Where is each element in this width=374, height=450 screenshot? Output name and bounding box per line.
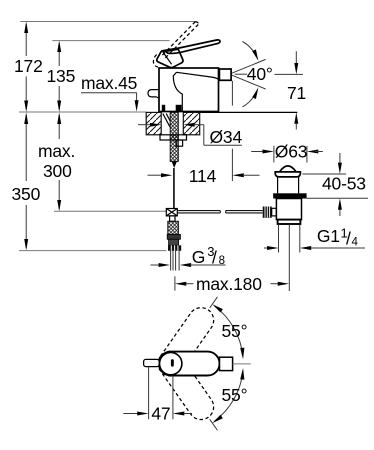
svg-text:G: G xyxy=(192,247,205,267)
top view: lever swung positions (dashed) xyxy=(153,303,218,425)
wire reference line flange underside xyxy=(302,173,346,175)
base seal dark blocks xyxy=(162,105,165,112)
shank tip xyxy=(172,161,177,168)
connector blocks xyxy=(167,234,180,239)
wire extension line from spout tip xyxy=(231,81,233,106)
wire inner spout channel top xyxy=(177,72,219,79)
wire centerline right xyxy=(233,363,251,365)
mounting washer xyxy=(160,135,187,140)
top view: pin mark xyxy=(171,359,174,366)
dimension 350 (depth below counter to hose end) xyxy=(12,112,167,250)
drain upper body xyxy=(278,177,299,193)
svg-text:max.45: max.45 xyxy=(81,73,137,93)
dimension 172 (height to raised lever tip) xyxy=(14,22,43,113)
dimension 40 degree spray angle xyxy=(232,42,303,107)
lever pivot base xyxy=(157,49,183,68)
dimension diameter 63 (flange) xyxy=(251,142,323,163)
svg-text:max.: max. xyxy=(38,141,75,161)
svg-text:40°: 40° xyxy=(247,64,273,84)
wire extension lines below drain xyxy=(278,224,280,252)
threaded mounting shank xyxy=(160,112,187,208)
svg-text:47: 47 xyxy=(151,404,170,424)
svg-text:8: 8 xyxy=(219,255,225,267)
wire countertop reference extension left xyxy=(19,111,146,113)
dimension 55 degrees lower xyxy=(210,368,248,430)
dimension 135 (height to lever) xyxy=(47,41,76,112)
pop-up rod vertical xyxy=(173,168,175,209)
lever handle (front view) xyxy=(153,22,220,68)
svg-text:55°: 55° xyxy=(222,385,248,405)
threaded adapter below junction xyxy=(168,221,179,234)
wire upper arc xyxy=(242,42,254,54)
svg-text:350: 350 xyxy=(12,184,41,204)
countertop (section, hatched) xyxy=(146,112,297,134)
wire reference line (lever rest height) xyxy=(52,40,169,42)
lever raised position (dashed) xyxy=(153,22,198,67)
top view: lever capsule xyxy=(159,352,220,376)
wire ray at -55 xyxy=(210,419,218,430)
svg-text:71: 71 xyxy=(287,83,306,103)
hex nut G3/8 xyxy=(168,245,181,251)
dimension G1 1/4 (waste thread) xyxy=(264,226,365,251)
svg-text:172: 172 xyxy=(14,56,43,76)
wire lower ray xyxy=(232,75,266,89)
drain dome cap xyxy=(280,166,296,172)
dimension 71 (spout height) xyxy=(287,51,306,129)
wire countertop surface line right xyxy=(200,111,298,113)
wire drain axis line xyxy=(288,224,290,291)
svg-text:/: / xyxy=(212,248,217,268)
pop-up actuator knob xyxy=(148,90,159,99)
spout outlet xyxy=(219,69,231,80)
svg-text:max.180: max.180 xyxy=(196,274,262,294)
drain body bottom rim xyxy=(278,220,301,224)
rubber gasket xyxy=(273,193,306,198)
drain flange xyxy=(275,172,300,177)
wire lever base facet xyxy=(163,50,178,65)
dimension 55 degrees upper xyxy=(210,297,248,360)
dimension 40-53 (clamping range) xyxy=(302,153,368,216)
dimension max.180 (rod reach) xyxy=(175,274,289,294)
top view: pop-up knob tab xyxy=(144,359,160,366)
pop-up waste drain assembly xyxy=(263,166,307,291)
wire supply pipes xyxy=(171,251,180,271)
svg-text:/: / xyxy=(346,229,351,249)
svg-text:40-53: 40-53 xyxy=(322,174,366,194)
svg-text:135: 135 xyxy=(47,66,76,86)
wire hole diagonals xyxy=(163,114,170,127)
wire 350 bottom reference line xyxy=(19,250,166,252)
wire upper ray xyxy=(232,59,266,73)
wire reference line gasket bottom xyxy=(307,197,368,199)
top view: body circle xyxy=(160,352,182,374)
wire center dash xyxy=(235,73,247,75)
wire horizontal rod to drain xyxy=(177,211,262,213)
knurled rod nut xyxy=(263,207,277,218)
svg-text:55°: 55° xyxy=(222,321,248,341)
dimension 47 (knob offset) xyxy=(123,367,192,424)
wire reference line top (lever raised height) xyxy=(20,21,196,23)
dimension diameter 34 (hole) xyxy=(138,123,242,147)
dimension max.45 (countertop thickness) xyxy=(81,73,139,112)
wire ray at +55 xyxy=(210,297,218,308)
svg-text:114: 114 xyxy=(189,166,217,186)
faucet body (front view) xyxy=(148,68,231,112)
mounting nut xyxy=(176,140,182,146)
svg-text:4: 4 xyxy=(352,237,359,249)
dimension 114 (spout projection) xyxy=(148,81,260,186)
top view: spout outlet square xyxy=(220,357,233,370)
wire pop-up rod horizontal reference xyxy=(54,210,166,212)
svg-text:Ø34: Ø34 xyxy=(210,127,243,147)
wire lower arc xyxy=(242,95,254,107)
svg-text:G1: G1 xyxy=(317,226,340,246)
dimension max.300 (depth below counter to pop-up rod) xyxy=(38,112,75,211)
svg-text:300: 300 xyxy=(43,161,72,181)
drain lower body xyxy=(276,199,301,220)
svg-text:Ø63: Ø63 xyxy=(275,142,307,162)
dimension G 3/8 (supply thread) xyxy=(151,244,226,268)
wire inner spout channel curve xyxy=(173,72,182,111)
rod clamp junction xyxy=(166,209,177,222)
